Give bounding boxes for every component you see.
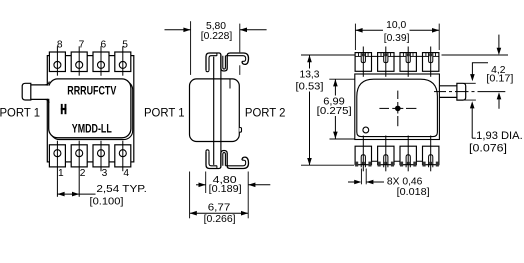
svg-text:2: 2 (80, 168, 86, 179)
svg-text:[0.076]: [0.076] (469, 143, 507, 155)
svg-text:7: 7 (79, 39, 85, 50)
svg-text:YMDD-LL: YMDD-LL (72, 123, 112, 136)
svg-text:PORT 2: PORT 2 (245, 105, 286, 119)
svg-text:[0.53]: [0.53] (296, 82, 324, 93)
svg-text:[0.228]: [0.228] (201, 31, 233, 42)
svg-text:PORT 1: PORT 1 (144, 105, 185, 119)
svg-text:6: 6 (100, 39, 106, 50)
svg-text:8X 0,46: 8X 0,46 (387, 176, 423, 187)
svg-text:[0.275]: [0.275] (317, 106, 352, 117)
svg-text:6,77: 6,77 (208, 203, 231, 214)
svg-text:8: 8 (57, 39, 63, 50)
svg-text:[0.266]: [0.266] (204, 214, 236, 225)
svg-text:[0.189]: [0.189] (209, 184, 242, 195)
svg-text:[0.17]: [0.17] (486, 74, 513, 85)
svg-text:[0.39]: [0.39] (384, 33, 410, 44)
svg-text:1,93 DIA.: 1,93 DIA. (476, 130, 523, 142)
svg-text:2,54 TYP.: 2,54 TYP. (96, 184, 147, 195)
svg-text:1: 1 (58, 168, 64, 179)
svg-text:5: 5 (122, 39, 128, 50)
svg-text:PORT 1: PORT 1 (0, 105, 40, 119)
svg-text:10,0: 10,0 (386, 20, 406, 31)
svg-text:[0.100]: [0.100] (90, 196, 124, 207)
svg-text:RRRUFCTV: RRRUFCTV (67, 85, 116, 98)
svg-text:3: 3 (102, 168, 108, 179)
svg-text:[0.018]: [0.018] (397, 187, 430, 198)
svg-text:4: 4 (123, 168, 129, 179)
svg-text:13,3: 13,3 (299, 70, 319, 81)
